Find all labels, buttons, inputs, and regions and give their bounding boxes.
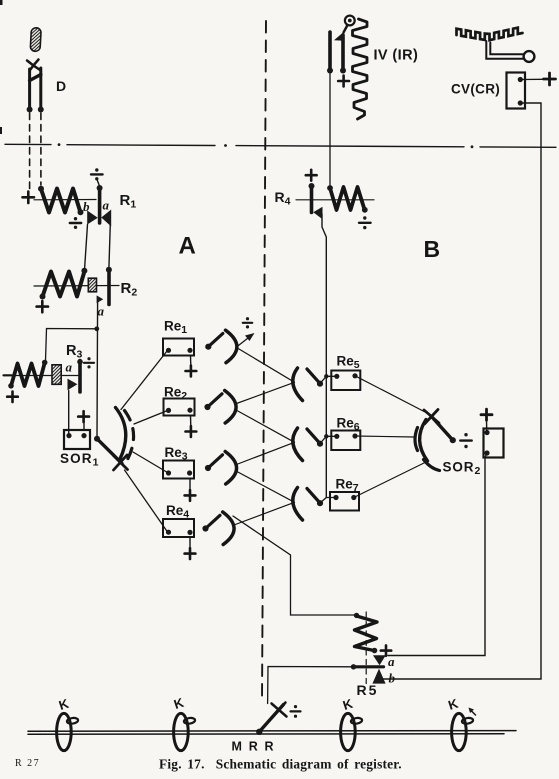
IV pennant flag	[334, 32, 344, 41]
separator rule dots	[58, 143, 474, 148]
core K1 ring	[57, 713, 79, 750]
node top of R2 armature	[106, 267, 112, 273]
SOR2 contact arc dashed segment lower	[424, 460, 440, 471]
relay R1 armature bar	[98, 188, 102, 224]
contact a of R5 (upper triangle)	[373, 655, 386, 665]
wire SOR1 to Re3	[133, 452, 168, 473]
Re6 terminals	[334, 433, 357, 439]
ground below R4 winding	[359, 216, 371, 229]
wire R5 bar to MRR switch	[268, 667, 354, 704]
wire Re3 to +	[189, 479, 191, 491]
battery + of R3	[7, 392, 18, 403]
capacitor CV box	[507, 73, 526, 109]
contact of Re4	[202, 512, 234, 545]
svg-text:a: a	[388, 654, 395, 669]
contact a of R1	[101, 210, 111, 227]
Re3 terminals	[166, 470, 192, 475]
node R3 winding right	[42, 360, 48, 366]
B selector contact 2	[293, 428, 327, 461]
stepping selector SOR1 box	[64, 430, 90, 449]
contact of Re1 (pivot, lever, arc)	[205, 330, 237, 363]
battery + above box	[481, 409, 492, 420]
detector D body	[27, 60, 41, 109]
battery + above SOR1	[78, 411, 89, 422]
crystal detector capsule (hatched)	[30, 28, 41, 52]
wire Re7 to SOR2 arc bottom	[354, 462, 426, 498]
SOR1 contact arc solid	[116, 408, 126, 460]
resistor R4 winding	[330, 187, 365, 210]
relay R2 armature bar	[107, 270, 111, 305]
battery box right of SOR2	[484, 429, 504, 458]
wire Re5 to SOR2 X	[355, 376, 427, 413]
svg-text:CV(CR): CV(CR)	[451, 82, 500, 97]
wire + to box	[486, 420, 488, 432]
resistor R5 vertical winding	[355, 616, 378, 651]
svg-text:B: B	[424, 236, 441, 262]
register shaft	[28, 731, 516, 735]
svg-text:A: A	[179, 233, 196, 260]
junction node on that wire	[94, 326, 99, 331]
wire Re3 arc to B selector 3	[236, 471, 295, 502]
Re2 terminals	[166, 408, 193, 413]
SOR1 off-normal X contact	[114, 455, 128, 470]
arrow mark right of K4	[469, 708, 476, 716]
ground right of SOR2 wiper	[460, 433, 471, 448]
wire arrow from Re1 arc to ground	[237, 333, 255, 347]
relay Re2 box	[164, 399, 195, 416]
wire tap into Re7	[326, 497, 336, 499]
wire Re4 arc to B selector 3	[234, 502, 295, 525]
node left of R5 bar	[351, 664, 356, 669]
battery + terminal of R1 circuit	[23, 192, 35, 203]
B selector contact 1 (arc, lever, pivot)	[293, 368, 327, 401]
junction node at Re5 tap	[324, 374, 328, 378]
R5 armature bar horizontal	[353, 665, 384, 668]
wire SOR1 X to Re4	[125, 470, 168, 532]
node top of R5	[354, 613, 359, 618]
CV box terminals	[518, 77, 523, 106]
wire ground to R1 armature	[97, 180, 99, 186]
battery + below Re4	[185, 548, 196, 559]
relay Re7 box	[330, 492, 359, 511]
capacitor IV(IR) right plate	[341, 35, 345, 70]
wire R2 contact down to SOR1 wiper	[96, 302, 99, 439]
node at R1 winding right	[78, 209, 84, 215]
B selector contact 3	[293, 488, 327, 521]
brush circle	[524, 51, 535, 62]
coil of R2 (hatched box)	[88, 278, 96, 292]
wire Re2 arc to B selector 2	[236, 410, 295, 442]
wire CV bottom terminal down right side to R5 contact b	[382, 103, 542, 679]
svg-text:a: a	[66, 360, 73, 375]
wire Re2 arc to B selector 1	[237, 382, 295, 403]
wire comb down and right to brush circle	[486, 41, 523, 59]
svg-text:Fig. 17. Schematic diagram of: Fig. 17. Schematic diagram of register.	[159, 757, 402, 772]
node R4 winding right	[362, 207, 368, 213]
resistor R2 winding	[43, 271, 85, 296]
ground above relay R1 armature	[91, 168, 103, 180]
contact a of R2	[97, 295, 104, 303]
wire contact a down to R2 armature	[109, 224, 110, 269]
wire + to SOR1 box	[83, 422, 85, 430]
ground right of R3 armature	[84, 357, 94, 368]
resistor R3 winding	[11, 363, 45, 386]
SOR1 wiper pivot node	[94, 436, 100, 442]
core K2 ring	[174, 713, 196, 750]
wire SOR1 to Re2	[134, 411, 168, 425]
wire tap into Re6	[326, 435, 337, 437]
horizontal dash-dot separator rule	[5, 144, 556, 147]
jack circle inner dot	[348, 19, 352, 23]
wire Re4 arc down to R5 branch	[233, 516, 357, 615]
wire dashed lead left from D	[29, 113, 31, 189]
svg-text:b: b	[83, 199, 90, 214]
node at R1 winding left	[38, 186, 44, 192]
battery + below Re3	[185, 490, 196, 501]
relay Re5 box	[331, 371, 360, 391]
MRR X contact	[272, 703, 287, 718]
relay R4 armature bar	[310, 186, 314, 213]
Re1 terminals	[166, 348, 193, 353]
wire SOR1 to Re1	[121, 351, 167, 410]
relay Re4 box	[163, 519, 194, 537]
core K3 ring	[341, 713, 363, 750]
node R2 winding left	[40, 294, 46, 300]
wire tap into Re5	[326, 375, 337, 377]
wire battery box down to R5 contact a	[388, 453, 487, 656]
vertical dashed centre line between A and B	[262, 21, 266, 700]
wire Re3 arc to B selector 2	[237, 442, 295, 464]
wire junction to R3 branch	[46, 329, 97, 362]
Re4 terminals	[166, 530, 193, 535]
node MRR on shaft	[256, 729, 262, 735]
relay Re3 box	[163, 461, 194, 479]
wire Re6 to SOR2 arc	[355, 436, 414, 437]
MRR switch blade	[260, 705, 284, 732]
SOR2 contact arc solid	[420, 420, 428, 462]
wire flag to jack circle	[344, 25, 348, 33]
coil of R3 (hatched box)	[52, 365, 61, 385]
SOR1 box terminals	[66, 433, 86, 438]
page edge mark top-left	[0, 0, 3, 134]
svg-text:MRR: MRR	[232, 740, 281, 754]
Re7 terminals	[333, 495, 356, 500]
node R2 winding right	[81, 268, 87, 274]
dashed mechanical link through R5 contacts	[365, 612, 367, 687]
stepping selector SOR2 X contact	[424, 410, 439, 425]
wire Re1 to +	[190, 356, 192, 367]
contact of Re2	[204, 391, 236, 424]
inductor IV(IR) meander	[353, 19, 368, 119]
wire R3 contact down to SOR1 box	[68, 391, 70, 434]
wire CV top terminal to +	[520, 78, 542, 80]
ground with arrow above Re1 contact	[243, 317, 252, 328]
svg-text:R 27: R 27	[15, 758, 40, 769]
wire Re4 to +	[189, 537, 191, 548]
svg-text:IV (IR): IV (IR)	[374, 48, 419, 64]
battery + above R4 armature	[306, 170, 317, 181]
Re5 terminals	[334, 373, 357, 379]
battery + below IV right plate	[338, 76, 349, 87]
battery + below Re2	[186, 426, 197, 437]
relay R3 armature bar	[78, 361, 82, 393]
resistor R2 lead line	[34, 285, 119, 288]
SOR2 wiper	[432, 417, 453, 440]
node bottom of R5 winding	[372, 648, 378, 654]
contact a of R3	[68, 379, 78, 391]
core K4 ring	[452, 713, 474, 750]
minus terminal of R3	[4, 374, 12, 376]
wire bus from R4 down to Re7	[322, 214, 326, 498]
ground right of MRR	[291, 705, 301, 718]
battery + right of CV	[544, 73, 556, 85]
relay Re6 box	[331, 431, 360, 451]
node R3 winding left	[8, 383, 14, 389]
wire IV left plate down to R4	[329, 71, 331, 188]
svg-text:R5: R5	[357, 682, 379, 698]
battery box terminals	[484, 430, 489, 456]
IV plate terminal nodes	[327, 68, 346, 74]
SOR1 contact arc dashed	[125, 411, 134, 460]
jack circle	[345, 16, 355, 26]
SOR2 contact arc dashed segment upper	[415, 428, 418, 451]
contact b of R1	[87, 211, 98, 225]
battery + below Re1	[186, 366, 197, 377]
svg-text:a: a	[98, 304, 105, 319]
capacitor IV(IR) left plate	[328, 32, 332, 70]
svg-text:a: a	[103, 198, 110, 213]
node top of R3 armature	[77, 359, 83, 365]
comb commutator symbol	[457, 28, 523, 41]
battery + of R2	[37, 301, 48, 312]
wire from + to R1 resistor	[34, 199, 96, 201]
svg-text:D: D	[56, 78, 66, 94]
contact b of R5 (lower triangle)	[372, 669, 385, 684]
relay Re1 box	[163, 339, 194, 356]
wire R4 label to armature	[296, 199, 374, 201]
node top of R1 armature	[97, 185, 103, 191]
wire contact b down to R2	[85, 225, 88, 271]
ground below R1 winding	[70, 217, 81, 229]
contact of R4	[313, 207, 322, 220]
junction node at Re6 tap	[324, 434, 328, 438]
resistor R1 winding	[41, 189, 81, 213]
SOR2 wiper end node	[450, 437, 456, 443]
node R4 winding left	[327, 185, 333, 191]
wire Re1 arc to B selector 1	[237, 348, 295, 383]
svg-text:b: b	[389, 671, 396, 686]
wire dashed lead right from D	[40, 113, 42, 185]
SOR1 wiper	[97, 439, 122, 464]
resistor R3 lead line	[4, 375, 79, 377]
wire Re2 to +	[190, 416, 192, 427]
battery + right of R5	[381, 645, 391, 655]
node top of R4 armature	[309, 183, 315, 189]
detector D terminals	[27, 107, 44, 113]
contact of Re3	[205, 452, 237, 485]
